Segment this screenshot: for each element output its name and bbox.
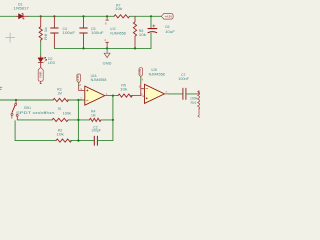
svg-text:1M: 1M <box>91 114 96 118</box>
wire row B <box>17 119 52 121</box>
svg-text:10k: 10k <box>139 33 146 37</box>
clipped label at left edge <box>0 87 2 89</box>
svg-text:R1: R1 <box>58 107 62 111</box>
wire row B to output column <box>101 119 113 121</box>
diode D1 1N5817 <box>17 14 29 19</box>
wire LED to tag <box>40 62 42 67</box>
svg-text:100uF: 100uF <box>63 31 77 35</box>
pin 8 stub U1A <box>78 86 80 91</box>
junction at U1C V+ <box>106 15 108 17</box>
LED D2 <box>38 57 46 62</box>
svg-text:10k: 10k <box>115 7 122 11</box>
wire tag to U1B pin <box>140 77 142 83</box>
resistor R4 <box>90 118 102 121</box>
origin cross marker <box>6 33 15 42</box>
svg-text:NJM4558: NJM4558 <box>110 31 126 35</box>
wire output to R5 <box>113 95 118 97</box>
wire row A to op-amp <box>68 99 85 101</box>
wire row C to C2 <box>71 140 94 142</box>
svg-text:10uF: 10uF <box>165 30 176 34</box>
junction at D1 output <box>40 15 42 17</box>
svg-text:10k: 10k <box>57 132 64 136</box>
capacitor C5 <box>80 16 87 48</box>
svg-text:100k: 100k <box>63 111 72 115</box>
power tag above U1A <box>77 74 81 83</box>
wire feedback column <box>77 100 79 141</box>
wire U1B output to C7 <box>169 93 183 95</box>
junction at C4 <box>53 15 55 17</box>
junction rail-GND <box>106 47 108 49</box>
capacitor C4 <box>51 16 58 48</box>
svg-text:C6: C6 <box>165 25 170 29</box>
capacitor C7 <box>183 88 197 99</box>
power tag +V <box>161 14 173 20</box>
svg-text:SPDT on/off/on: SPDT on/off/on <box>16 111 55 115</box>
junction at C5 <box>82 15 84 17</box>
svg-text:LED: LED <box>48 61 56 65</box>
junction U1A output <box>112 95 114 97</box>
wire top rail right <box>130 15 162 17</box>
wire C2 to output column <box>98 96 113 141</box>
capacitor C6 (polarized) <box>148 16 157 48</box>
svg-text:1M: 1M <box>57 91 62 95</box>
resistor R7 <box>114 15 130 18</box>
wire top rail middle <box>29 15 114 17</box>
svg-text:1N5817: 1N5817 <box>14 7 29 11</box>
svg-text:U1B: U1B <box>151 68 157 72</box>
wire input row A <box>0 99 53 101</box>
svg-text:GND: GND <box>103 62 112 66</box>
junction at C6 <box>150 15 152 17</box>
svg-text:RV1: RV1 <box>191 101 197 105</box>
svg-text:+4.5V: +4.5V <box>139 69 142 76</box>
svg-text:10k: 10k <box>120 87 127 91</box>
global label tag below LED <box>38 67 43 83</box>
resistor R1 <box>52 118 68 121</box>
junction rail-C5 <box>82 47 84 49</box>
junction rail-R8 <box>134 47 136 49</box>
op-amp U1C power unit pins 8 and 4 <box>104 16 108 48</box>
junction input-switch <box>15 99 17 101</box>
wire row B middle <box>68 119 89 121</box>
svg-text:C5: C5 <box>91 27 96 31</box>
capacitor C2 <box>94 136 97 145</box>
svg-text:100uF: 100uF <box>91 31 105 35</box>
wire R5 to U1B <box>130 95 141 97</box>
svg-text:R6 1k: R6 1k <box>44 27 48 40</box>
junction row B output column <box>112 119 114 121</box>
svg-text:+4.5V: +4.5V <box>77 75 80 82</box>
svg-text:PWR: PWR <box>39 71 43 77</box>
op-amp U1A <box>79 86 113 105</box>
ground GND <box>104 48 110 57</box>
wire switch to row C <box>15 121 56 141</box>
switch SW1 <box>11 100 18 120</box>
op-amp U1B <box>139 84 169 103</box>
svg-text:SW1: SW1 <box>24 106 31 110</box>
power tag above U1B <box>139 68 143 77</box>
svg-text:U1C: U1C <box>110 27 116 31</box>
resistor R6 (vertical, LED series) <box>39 16 42 58</box>
resistor R8 <box>133 16 136 48</box>
pin stub U1B <box>140 83 142 89</box>
svg-text:NJM4558: NJM4558 <box>149 73 165 77</box>
wire lower rail <box>54 47 151 49</box>
wire top rail left segment <box>0 15 17 17</box>
junction row B column <box>77 119 79 121</box>
resistor R2 <box>56 139 71 142</box>
potentiometer RV1 <box>197 91 201 117</box>
resistor R5 <box>118 94 132 97</box>
svg-text:+4.5V: +4.5V <box>165 14 173 18</box>
junction row A column <box>77 99 79 101</box>
junction row C column <box>77 140 79 142</box>
wire tag to pin3 <box>78 83 80 86</box>
svg-text:100nF: 100nF <box>178 77 189 81</box>
resistor R3 <box>53 98 68 101</box>
svg-text:100pF: 100pF <box>91 129 101 133</box>
svg-text:100k: 100k <box>190 97 197 101</box>
svg-text:NJM4558: NJM4558 <box>91 78 107 82</box>
svg-text:C4: C4 <box>63 27 68 31</box>
